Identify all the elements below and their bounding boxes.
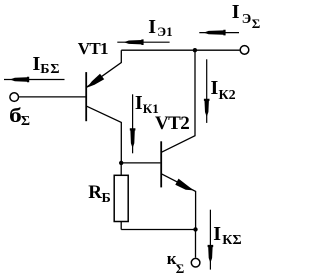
terminal circle Э (emitter summary, top right) xyxy=(240,46,249,55)
node junction dot on top rail xyxy=(193,48,197,52)
node junction dot bottom xyxy=(193,227,197,231)
label IБΣ xyxy=(33,54,41,74)
label IЭ1 xyxy=(148,17,156,37)
wire base VT1 xyxy=(19,96,86,98)
current arrow IК1 (pointing down) xyxy=(132,94,134,153)
current arrow IК2 (pointing down) xyxy=(206,59,208,123)
transistor VT2 emitter arrowhead xyxy=(175,179,194,191)
label IК1 xyxy=(135,93,143,113)
wire VT2 emitter (diagonal + vertical down) xyxy=(162,174,196,230)
label IК2 xyxy=(211,78,219,98)
current arrow IКΣ (pointing down) xyxy=(209,210,211,270)
node junction dot middle (base of VT2 / R) xyxy=(119,161,123,165)
label бΣ xyxy=(9,106,22,126)
wire resistor top lead xyxy=(120,163,122,175)
wire bottom rail xyxy=(121,229,195,231)
transistor VT2 base bar xyxy=(160,141,162,187)
label VT2 xyxy=(155,114,189,133)
label кΣ xyxy=(167,250,177,267)
label RБ xyxy=(88,183,102,202)
label VT1 xyxy=(78,40,108,57)
wire к terminal stub xyxy=(195,229,197,257)
label IКΣ xyxy=(213,224,221,244)
terminal circle б (base summary, left) xyxy=(10,93,19,102)
wire VT2 collector (vertical from top node + diagonal) xyxy=(162,50,195,152)
label IЭΣ xyxy=(232,2,240,22)
wire resistor bottom lead xyxy=(120,222,122,230)
wire VT1 collector (diagonal + vertical down) xyxy=(87,106,122,163)
current arrow IЭΣ (top right, pointing left) xyxy=(199,32,239,34)
current arrow IЭ1 (top middle, pointing left) xyxy=(117,41,169,43)
wire VT1 emitter (corner + diagonal to base bar) xyxy=(87,50,122,87)
resistor RБ body xyxy=(114,175,128,221)
transistor VT1 emitter arrowhead xyxy=(87,74,105,88)
wire base VT2 xyxy=(121,162,160,164)
transistor VT1 base bar xyxy=(85,72,87,121)
terminal circle к (collector summary, bottom) xyxy=(191,258,200,267)
wire top rail xyxy=(121,49,240,51)
current arrow IБΣ (left, pointing left) xyxy=(4,79,65,81)
